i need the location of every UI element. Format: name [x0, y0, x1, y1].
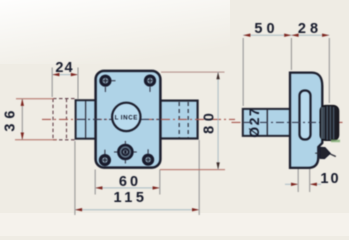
svg-text:L INCE: L INCE — [115, 115, 138, 122]
scan artifact (green mark near knob) — [331, 140, 340, 143]
lighter paper tone top-left — [0, 0, 230, 64]
screw bottom-left — [99, 150, 111, 167]
dimension 115 — [75, 140, 199, 215]
svg-text:10: 10 — [320, 171, 340, 187]
svg-text:36: 36 — [3, 106, 19, 132]
lighter paper strip bottom — [0, 213, 349, 236]
left cylinder bar (front view) — [76, 100, 96, 139]
side view body — [290, 73, 322, 168]
centre line, front view (dark over blue body) — [77, 118, 160, 120]
knurled knob (side view) — [320, 105, 339, 140]
svg-text:28: 28 — [298, 21, 322, 37]
svg-text:50: 50 — [254, 21, 278, 37]
front plate (rounded rect) — [96, 71, 161, 168]
svg-text:60: 60 — [119, 174, 141, 190]
side bar inner edge — [266, 110, 268, 136]
dimension 10 — [285, 169, 341, 192]
centre line, front view (dash-dot red on white) — [42, 118, 235, 120]
right cylinder bar (front view) — [160, 101, 198, 139]
screw top-left — [99, 75, 115, 92]
central cam screw — [114, 141, 137, 164]
dimension 60 — [95, 170, 160, 195]
set screw (side view bottom right) — [315, 147, 336, 158]
centre line, side view (dash-dot red) — [232, 121, 345, 123]
hidden cylinder tail (dashed rect, front view) — [53, 99, 76, 140]
svg-text:24: 24 — [55, 60, 73, 76]
LINCE logo circle — [112, 103, 140, 131]
left bar inner edge — [85, 101, 87, 138]
dimension 80 — [160, 72, 225, 170]
right bar hidden edges (dashed) — [179, 102, 188, 138]
screw bottom-right — [142, 149, 154, 165]
dimension 24 — [52, 60, 78, 100]
keyway slot (side view) — [300, 91, 311, 140]
dimension 36 — [3, 99, 58, 140]
dimension 28 — [291, 21, 329, 103]
dimension 50 — [243, 21, 291, 106]
screw top-right — [144, 75, 156, 92]
svg-text:80: 80 — [202, 109, 218, 134]
side view cylinder bar — [243, 109, 290, 136]
centre line, side view (dark over blue body) — [244, 121, 321, 123]
svg-text:115: 115 — [114, 190, 148, 206]
